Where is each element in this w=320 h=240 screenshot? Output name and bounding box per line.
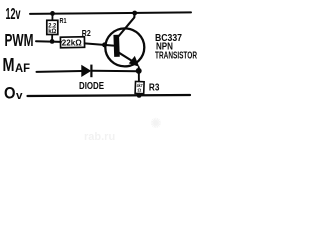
wire stub from 12v rail to R1 top [51, 13, 53, 20]
wire from R2 to transistor base [85, 43, 114, 45]
diode cathode bar [90, 65, 92, 78]
svg-text:Ω: Ω [137, 88, 141, 93]
svg-text:DIODE: DIODE [79, 81, 104, 92]
transistor emitter line with arrow [118, 52, 134, 62]
svg-text:rab.ru: rab.ru [84, 131, 115, 142]
svg-text:O: O [4, 84, 16, 103]
resistor R3 (box) [135, 81, 144, 93]
transistor base bar [113, 35, 119, 57]
wire stub R3 bottom to Ov rail [138, 94, 140, 96]
wire emitter junction down to R3 [138, 67, 140, 82]
svg-text:R1: R1 [60, 16, 67, 25]
svg-text:kΩ: kΩ [48, 29, 56, 35]
svg-text:M: M [3, 55, 15, 75]
transistor collector line to 12v rail [118, 13, 135, 37]
svg-text:✺: ✺ [150, 115, 162, 131]
junction dot on 12v rail above R1 [50, 11, 55, 16]
junction blob emitter/MAF [136, 68, 142, 74]
wire 12v rail [30, 12, 191, 14]
junction dot on 12v rail at collector [132, 11, 137, 16]
svg-text:v: v [16, 90, 23, 102]
resistor R1 (box) [47, 20, 58, 34]
svg-text:AF: AF [15, 61, 30, 75]
emitter arrowhead [129, 56, 139, 67]
resistor R2 (box) [60, 37, 84, 48]
wire PWM segment [36, 40, 61, 43]
diode D1 triangle [82, 66, 91, 77]
svg-text:12v: 12v [6, 6, 21, 23]
junction dot on Ov rail below R3 [137, 93, 142, 98]
svg-text:R2: R2 [82, 28, 91, 38]
transistor Q1 circle [105, 28, 144, 66]
svg-text:PWM: PWM [5, 30, 34, 50]
wire from diode to emitter junction [92, 70, 138, 72]
junction dot at base wire [102, 42, 107, 47]
junction dot on PWM line below R1 [50, 39, 55, 44]
svg-text:TRANSISTOR: TRANSISTOR [155, 51, 197, 62]
wire MAF segment to diode [37, 70, 82, 73]
wire stub from R1 bottom to PWM line [51, 35, 53, 42]
svg-text:22kΩ: 22kΩ [62, 37, 82, 47]
wire Ov rail [28, 95, 191, 96]
svg-text:R3: R3 [149, 83, 160, 94]
